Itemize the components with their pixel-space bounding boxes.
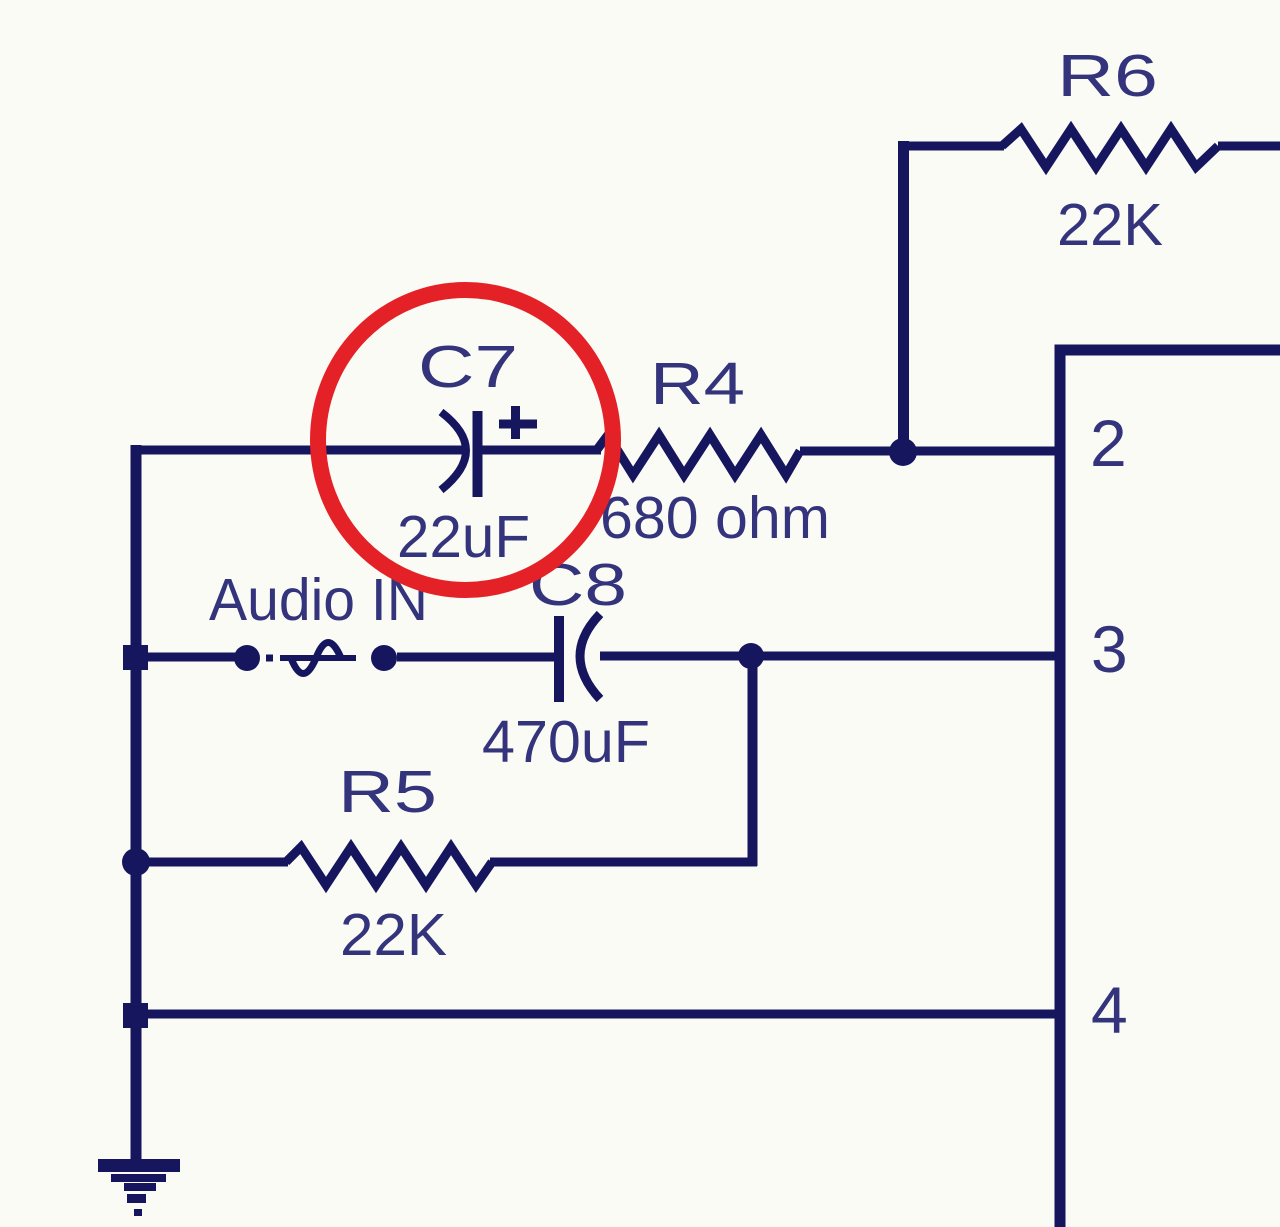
wire: C7 to R4 (482, 446, 601, 455)
audio source terminal dot right (371, 645, 397, 671)
svg-text:680 ohm: 680 ohm (600, 485, 830, 551)
IC box edge (1060, 350, 1280, 1227)
wire: R4 to pin 2 (800, 447, 1058, 456)
resistor R6 (1002, 129, 1218, 167)
svg-text:C7: C7 (418, 334, 518, 400)
audio source dashed link and sine (266, 643, 356, 674)
annotation red circle around C7 (318, 290, 613, 590)
node junction R4/R6 (889, 438, 917, 466)
svg-text:2: 2 (1090, 406, 1127, 480)
node junction rail/R5 (122, 848, 150, 876)
wire: audio source to C8 (397, 653, 556, 662)
node junction rail/pin4 row (123, 1003, 148, 1028)
svg-text:22uF: 22uF (397, 504, 530, 570)
ground (98, 1159, 180, 1216)
wire: rail to R5 (136, 858, 288, 867)
svg-text:470uF: 470uF (482, 709, 650, 775)
svg-text:3: 3 (1091, 612, 1128, 686)
wire: C8 to pin 3 (600, 652, 1058, 661)
wire: pin 4 row (136, 1010, 1058, 1019)
svg-text:4: 4 (1091, 973, 1128, 1047)
node junction C8/R5 (738, 643, 764, 669)
svg-text:R5: R5 (338, 759, 437, 825)
wire: R6 to right edge (1218, 142, 1280, 151)
wire: vertical junction down to R5 (748, 656, 758, 866)
resistor R5 (286, 847, 492, 885)
capacitor C8 (559, 614, 600, 702)
audio source terminal dot left (234, 645, 260, 671)
wire: rail to audio source (136, 653, 236, 662)
svg-text:22K: 22K (340, 902, 447, 968)
wire: row1 horizontal from rail to C7 (131, 446, 468, 455)
resistor R4 (596, 435, 800, 475)
wire: R5 to vertical (490, 858, 757, 867)
wire: R6 row leading (898, 142, 1004, 151)
wire: left vertical rail (131, 445, 142, 1160)
svg-text:R6: R6 (1057, 43, 1158, 109)
capacitor C7 (441, 406, 537, 497)
wire: vertical from R6 corner down to junction (898, 141, 909, 452)
svg-text:22K: 22K (1057, 192, 1163, 258)
svg-text:R4: R4 (650, 351, 745, 417)
node junction rail/audio row (123, 645, 148, 670)
